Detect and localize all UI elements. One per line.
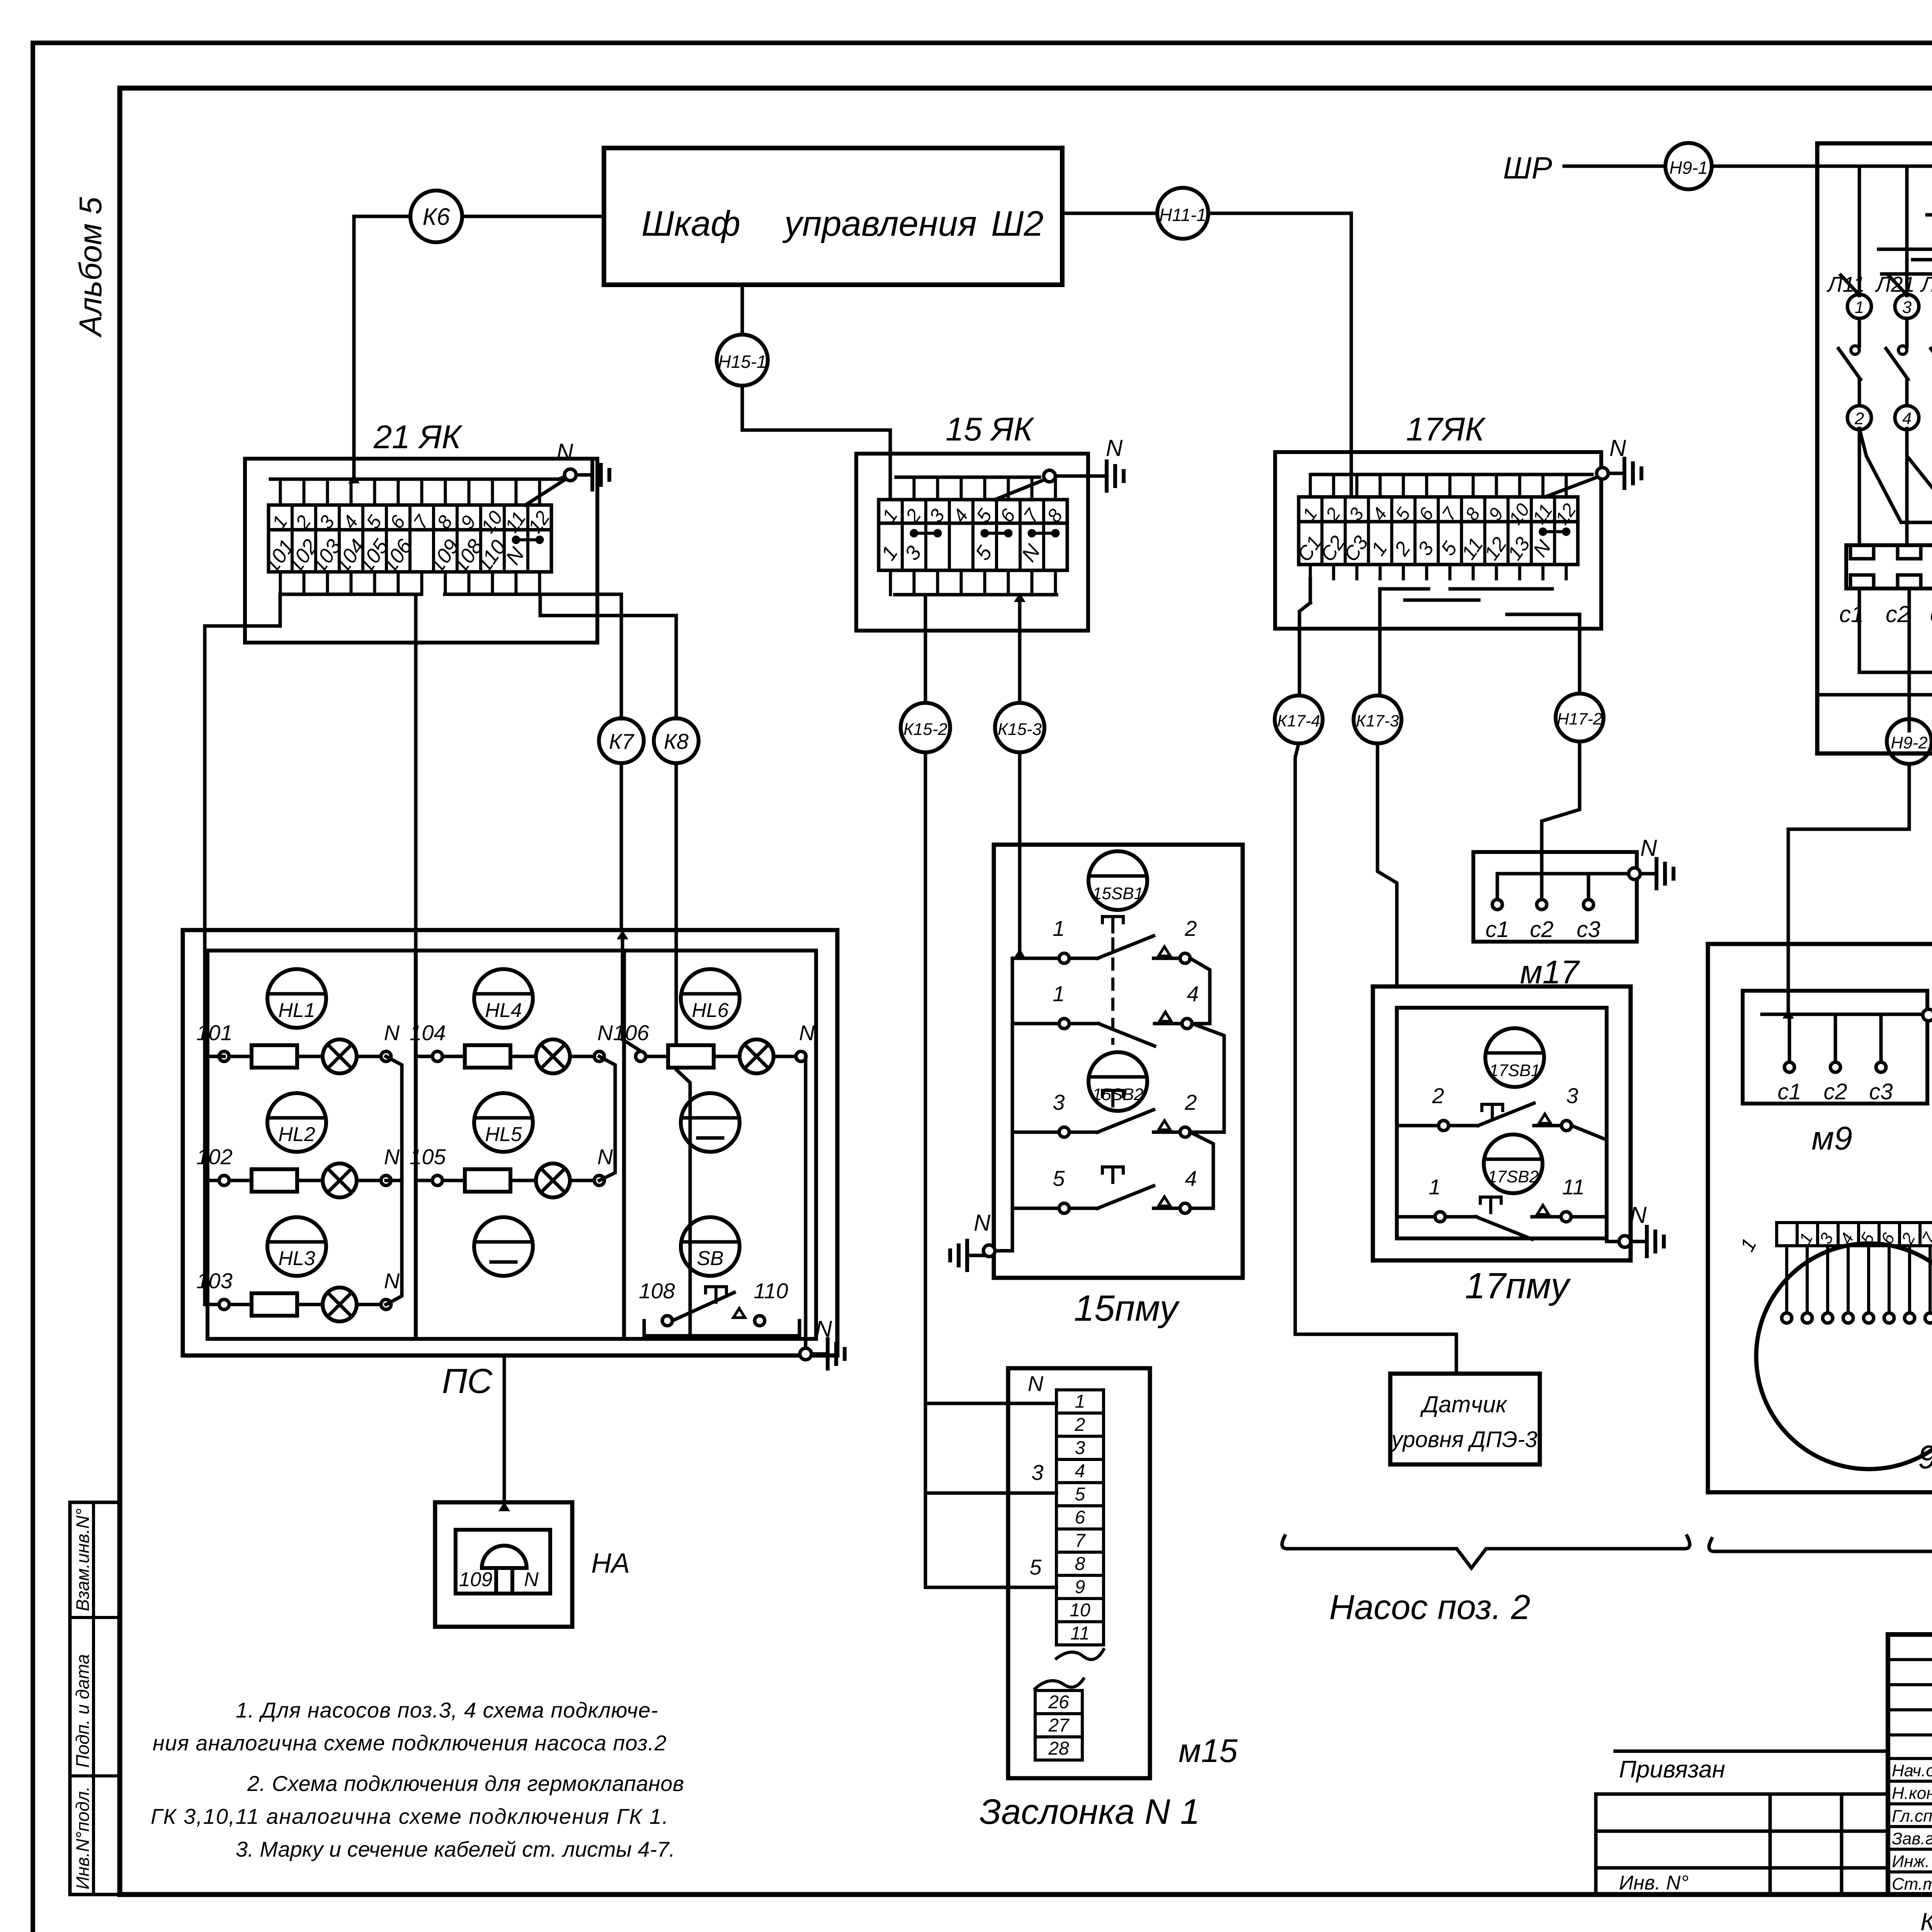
ПС ground	[811, 1352, 828, 1356]
wire Н9-2 to м9	[1788, 764, 1909, 1014]
м17 neutral node N	[1629, 868, 1640, 879]
svg-text:N: N	[1609, 435, 1626, 461]
svg-text:ГК 3,10,11 аналогична схеме: ГК 3,10,11 аналогична схеме подключения …	[151, 1804, 669, 1828]
svg-text:N: N	[384, 1269, 400, 1293]
indicator SB	[681, 1217, 740, 1276]
wire К7 upper	[540, 594, 621, 719]
terminal 103	[219, 1299, 229, 1310]
wire К15-2 upper	[924, 595, 927, 702]
svg-text:Инв. N°: Инв. N°	[1619, 1872, 1689, 1894]
15ЯК top bus	[896, 476, 1039, 479]
svg-text:17SB2: 17SB2	[1488, 1167, 1539, 1186]
indicator 15SB2	[1088, 1052, 1147, 1111]
м15 terminal cells 1-11	[1056, 1390, 1104, 1645]
21ЯК top bus	[270, 478, 558, 481]
terminal 105	[432, 1175, 442, 1185]
resistor 102	[252, 1169, 297, 1192]
9км braid line 8	[1882, 272, 1932, 276]
terminal N of row 104	[594, 1051, 604, 1061]
svg-text:3: 3	[900, 542, 926, 565]
svg-text:4: 4	[1075, 1461, 1085, 1481]
17пму inner box	[1397, 1008, 1607, 1238]
svg-text:15SB2: 15SB2	[1092, 1085, 1143, 1104]
resistor 104	[465, 1045, 510, 1068]
м9 terminal c1	[1788, 1014, 1791, 1062]
svg-text:105: 105	[410, 1145, 446, 1169]
svg-text:HL5: HL5	[485, 1123, 522, 1146]
terminal 102	[219, 1175, 229, 1185]
wire Н15-1 from Ш2 bottom	[741, 285, 744, 335]
17пму row1 terminals	[1439, 1121, 1449, 1131]
cable circle Н9-1	[1665, 143, 1712, 189]
9SQ terminal cells	[1777, 1223, 1932, 1247]
svg-text:N: N	[1529, 536, 1556, 561]
15пму row2 terminals	[1059, 1019, 1069, 1029]
svg-text:К6: К6	[422, 204, 450, 230]
svg-text:5: 5	[971, 541, 997, 565]
м17 terminal c2	[1540, 874, 1544, 899]
м17 internal bus	[1497, 872, 1629, 876]
terminal N of row 102	[381, 1175, 391, 1185]
cable circle К15-3	[995, 703, 1044, 752]
svg-text:НА: НА	[591, 1548, 630, 1579]
ПС divider 2	[622, 951, 626, 1339]
switch SB bracket	[644, 1321, 799, 1336]
wire N to м15 cell1	[925, 1402, 1056, 1405]
17ЯК top bus	[1312, 473, 1592, 476]
resistor 106	[668, 1045, 714, 1068]
terminal block 21ЯК outline	[245, 459, 597, 643]
svg-text:15 ЯК: 15 ЯК	[946, 411, 1035, 448]
indicator HL4	[474, 969, 533, 1028]
svg-text:104: 104	[410, 1020, 446, 1045]
bell НА outer box	[435, 1502, 572, 1627]
svg-text:уровня ДПЭ-3: уровня ДПЭ-3	[1390, 1427, 1537, 1452]
cable circle К15-2	[901, 703, 950, 752]
м9 neutral node N	[1923, 1009, 1932, 1021]
svg-text:9SQ: 9SQ	[1918, 1439, 1932, 1476]
svg-text:Н15-1: Н15-1	[718, 352, 766, 372]
wire К17-4 upper	[1298, 629, 1301, 694]
21ЯК N diagonal link	[526, 479, 566, 505]
svg-text:2: 2	[1390, 538, 1415, 560]
svg-text:5: 5	[1437, 537, 1462, 560]
resistor 101	[252, 1045, 297, 1068]
svg-text:HL1: HL1	[278, 999, 315, 1022]
wire N bus column2	[599, 1056, 615, 1180]
svg-text:1: 1	[877, 542, 902, 565]
svg-text:2: 2	[1854, 409, 1864, 428]
wire row 102	[229, 1179, 252, 1182]
indicator HL1	[267, 969, 326, 1028]
svg-text:3: 3	[1566, 1083, 1578, 1108]
wire to ПС column2	[414, 594, 418, 951]
ПС neutral node N	[800, 1348, 811, 1360]
wire Н17-2 to м17	[1542, 742, 1580, 874]
svg-text:1: 1	[1429, 1175, 1440, 1199]
wire К17-4 to Датчик	[1295, 743, 1456, 1374]
svg-text:м9: м9	[1811, 1120, 1852, 1157]
svg-text:5: 5	[1029, 1555, 1042, 1579]
17пму neutral node N	[1607, 1240, 1619, 1243]
15пму row4 terminals	[1059, 1203, 1069, 1213]
indicator reserve dash c3	[681, 1093, 740, 1152]
svg-text:К17-4: К17-4	[1277, 712, 1320, 730]
wire ШР to 9км	[1564, 165, 1665, 168]
9км contact column at 4812	[1847, 294, 1871, 318]
wire K6 vertical to 21ЯК	[352, 216, 356, 479]
resistor 103	[252, 1293, 297, 1316]
svg-text:HL3: HL3	[278, 1247, 315, 1270]
svg-text:N: N	[597, 1020, 613, 1045]
svg-text:с2: с2	[1530, 917, 1553, 942]
svg-text:Заслонка N 1: Заслонка N 1	[980, 1792, 1200, 1832]
left margin stamp boxes	[70, 1502, 120, 1895]
15пму mechanical dashed link	[1111, 939, 1114, 1043]
svg-text:15SB1: 15SB1	[1092, 884, 1143, 903]
wire feed column2	[416, 1055, 432, 1058]
svg-text:с3: с3	[1869, 1079, 1893, 1104]
svg-text:3: 3	[1053, 1090, 1065, 1114]
svg-text:Ст.техн.: Ст.техн.	[1892, 1875, 1932, 1894]
svg-text:7: 7	[1075, 1531, 1086, 1551]
cable circle Н15-1	[717, 335, 768, 386]
КК1 phase leads	[1858, 429, 1861, 545]
svg-text:К7: К7	[609, 729, 634, 753]
svg-text:ния аналогична схеме подклю: ния аналогична схеме подключения насоса …	[153, 1731, 667, 1755]
svg-text:17ЯК: 17ЯК	[1406, 411, 1486, 448]
ПС inner box	[207, 951, 816, 1339]
wire К8 lower into ПС	[676, 763, 690, 1336]
cable circle Н9-2	[1887, 719, 1932, 764]
bell НА inner box	[456, 1530, 550, 1594]
svg-text:3: 3	[1413, 538, 1438, 560]
svg-text:К17-3: К17-3	[1356, 712, 1399, 730]
wire 5 to м15 cell9	[925, 1586, 1056, 1589]
svg-text:11: 11	[1562, 1175, 1585, 1199]
svg-text:1. Для насосов поз.3, 4 схе: 1. Для насосов поз.3, 4 схема подключе-	[236, 1698, 658, 1722]
КК1 phase leads lower	[1858, 588, 1861, 672]
terminal block 17ЯК cells	[1293, 474, 1580, 579]
limit switch 9SQ circle	[1756, 1243, 1932, 1469]
svg-text:ПС: ПС	[442, 1362, 493, 1401]
svg-text:2. Схема подключения для ге: 2. Схема подключения для гермоклапанов	[247, 1771, 684, 1796]
9км braid line 4	[1927, 213, 1932, 217]
lamp row 103	[323, 1287, 357, 1321]
svg-text:5: 5	[1075, 1484, 1085, 1505]
local control post 17пму outer box	[1373, 986, 1631, 1260]
svg-text:4: 4	[1187, 981, 1199, 1006]
svg-text:с3: с3	[1930, 601, 1932, 627]
17пму row1 switch	[1449, 1124, 1478, 1128]
svg-text:17пму: 17пму	[1465, 1265, 1571, 1306]
svg-text:Ш2: Ш2	[991, 204, 1044, 243]
15пму row1 terminals	[1059, 953, 1069, 963]
indicator HL5	[474, 1093, 533, 1152]
wire row 103	[229, 1303, 252, 1306]
terminal 101	[219, 1051, 229, 1061]
indicator HL2	[267, 1093, 326, 1152]
svg-text:N: N	[974, 1210, 991, 1236]
svg-text:27: 27	[1048, 1715, 1070, 1736]
9км bottom bus 1	[1859, 671, 1932, 674]
svg-text:1: 1	[1736, 1235, 1761, 1255]
svg-text:Н.контр.: Н.контр.	[1892, 1784, 1932, 1803]
svg-text:Н9-2: Н9-2	[1891, 733, 1927, 752]
svg-text:17SB1: 17SB1	[1489, 1061, 1540, 1080]
lamp row 105	[536, 1163, 570, 1197]
svg-text:с2: с2	[1823, 1079, 1847, 1104]
svg-text:3. Марку и сечение кабелей: 3. Марку и сечение кабелей ст. листы 4-7…	[236, 1837, 675, 1861]
indicator HL6	[681, 969, 740, 1028]
svg-text:1: 1	[1075, 1391, 1085, 1412]
15пму ground	[967, 1254, 983, 1257]
17ЯК lower buses	[1309, 579, 1312, 603]
21ЯК ground	[576, 473, 592, 477]
indicator reserve dash c2	[474, 1217, 533, 1276]
svg-text:К8: К8	[664, 729, 689, 753]
wire К8 upper	[540, 594, 676, 719]
svg-text:с1: с1	[1485, 917, 1509, 942]
svg-text:11: 11	[1529, 500, 1556, 528]
terminal N of row 103	[381, 1299, 391, 1310]
brace Насос поз 2	[1282, 1536, 1690, 1568]
ПС divider 1	[414, 951, 418, 1339]
terminal block 15ЯК outline	[856, 454, 1088, 631]
indicator 15SB1	[1088, 851, 1147, 910]
wire N bus column1	[386, 1056, 402, 1304]
lamp row 104	[536, 1039, 570, 1073]
svg-text:8: 8	[1075, 1554, 1085, 1574]
м15 terminal cells 26-28	[1035, 1690, 1082, 1760]
9SQ terminal stems	[1782, 1246, 1932, 1323]
svg-text:Н17-2: Н17-2	[1557, 710, 1602, 728]
15ЯК ground	[1055, 474, 1090, 478]
15пму row1 switch	[1069, 957, 1098, 960]
wire K6 horizontal	[354, 215, 411, 218]
wire Н9-2 from КК1	[1908, 719, 1911, 731]
svg-text:К15-2: К15-2	[903, 720, 947, 739]
15пму right bus	[1190, 958, 1210, 1024]
svg-text:N: N	[1106, 435, 1123, 461]
15пму neutral node N	[983, 1245, 995, 1257]
svg-text:HL4: HL4	[485, 999, 522, 1022]
cable circle К8	[654, 718, 699, 763]
control cabinet box Ш2	[604, 148, 1062, 285]
wire 3 to м15 cell5	[925, 1492, 1056, 1495]
cable circle Н17-2	[1556, 694, 1604, 742]
15пму left bus	[995, 958, 1059, 1251]
9км braid line 6	[1879, 248, 1932, 251]
wire to ПС column1	[205, 594, 280, 1056]
wire К15-2 trunk down to м15	[924, 752, 927, 1587]
svg-text:3: 3	[1075, 1438, 1085, 1458]
svg-text:4: 4	[1902, 409, 1912, 428]
svg-text:HL6: HL6	[692, 999, 728, 1022]
svg-text:Гл.спец.: Гл.спец.	[1892, 1806, 1932, 1825]
wire row 104	[442, 1055, 465, 1058]
15пму row2 switch	[1069, 1022, 1099, 1026]
15ЯК neutral node N	[1044, 470, 1055, 482]
17пму ground	[1631, 1240, 1647, 1243]
cable circle К17-4	[1275, 696, 1323, 743]
svg-text:N: N	[1630, 1202, 1647, 1228]
svg-text:Н11-1: Н11-1	[1159, 205, 1206, 225]
svg-text:Шкаф: Шкаф	[641, 204, 740, 243]
9км phase entry diagonals	[1841, 275, 1857, 293]
svg-text:HL2: HL2	[278, 1123, 315, 1146]
svg-text:м15: м15	[1179, 1733, 1238, 1769]
wire N return column3	[804, 1056, 808, 1349]
indicator HL3	[267, 1217, 326, 1276]
svg-text:1: 1	[1053, 981, 1065, 1006]
svg-text:102: 102	[196, 1145, 232, 1169]
svg-text:101: 101	[196, 1020, 232, 1045]
brace Гермоклапан ГК1	[1709, 1539, 1932, 1571]
15ЯК lower bus	[895, 593, 1056, 597]
wire Н11-1 vertical to 17ЯК	[1350, 213, 1353, 497]
svg-text:3: 3	[1031, 1460, 1043, 1485]
svg-text:Датчик: Датчик	[1420, 1391, 1508, 1417]
9км bottom bus 2	[1817, 693, 1932, 697]
21ЯК lower bus A	[280, 593, 421, 596]
title block staff rows	[1888, 1780, 1932, 1783]
15пму row3 switch	[1069, 1131, 1098, 1134]
lamp row 101	[323, 1039, 357, 1073]
terminal N of row 106	[796, 1051, 806, 1061]
svg-text:106: 106	[613, 1020, 649, 1045]
svg-text:103: 103	[196, 1269, 232, 1293]
motor м17 box	[1473, 852, 1637, 942]
svg-text:Взам.инв.N°: Взам.инв.N°	[72, 1509, 93, 1611]
svg-text:2: 2	[1075, 1415, 1085, 1435]
wire К15-3 into 15пму	[1018, 752, 1022, 958]
cable circle К6	[410, 190, 462, 242]
svg-text:109: 109	[459, 1568, 493, 1591]
wire ПС to НА	[503, 1355, 506, 1502]
м17 terminal c1	[1496, 874, 1499, 899]
indicator 17SB1	[1485, 1028, 1544, 1087]
15пму row3 terminals	[1059, 1127, 1069, 1137]
svg-text:9: 9	[1075, 1577, 1085, 1597]
svg-text:с3: с3	[1577, 917, 1600, 942]
svg-text:3: 3	[1902, 298, 1912, 317]
terminal 106	[636, 1051, 646, 1061]
svg-text:SB: SB	[697, 1247, 723, 1270]
м9 terminal c2	[1834, 1014, 1837, 1062]
indicator 17SB2	[1484, 1134, 1543, 1193]
contactor assembly 9км box	[1817, 143, 1932, 753]
svg-text:N: N	[799, 1020, 815, 1045]
wire row 105	[442, 1179, 465, 1182]
svg-text:N: N	[1028, 1371, 1044, 1396]
21ЯК neutral node N	[565, 469, 576, 481]
terminal N of row 105	[594, 1175, 604, 1185]
17пму row2 terminals	[1435, 1212, 1445, 1222]
svg-text:Инж.: Инж.	[1892, 1852, 1930, 1871]
wire Н15-1 jog to 15ЯК	[742, 430, 890, 500]
svg-text:11: 11	[1070, 1623, 1090, 1644]
bell symbol	[482, 1546, 527, 1568]
svg-text:2: 2	[1432, 1083, 1444, 1108]
resistor 105	[465, 1169, 510, 1192]
17ЯК neutral node N	[1597, 468, 1608, 479]
cable circle К7	[599, 718, 644, 763]
terminal block 15ЯК cells	[877, 477, 1067, 595]
svg-text:Насос поз. 2: Насос поз. 2	[1329, 1588, 1531, 1627]
15ЯК N diagonal link	[995, 480, 1044, 500]
svg-text:Н9-1: Н9-1	[1669, 158, 1708, 178]
svg-text:N: N	[556, 439, 573, 465]
svg-text:Привязан: Привязан	[1619, 1756, 1725, 1783]
terminal block 21ЯК cells	[260, 479, 554, 594]
15пму row4 switch	[1069, 1207, 1098, 1210]
svg-text:управления: управления	[782, 204, 977, 243]
17пму row2 switch	[1445, 1215, 1476, 1219]
svg-text:N: N	[384, 1020, 400, 1045]
21ЯК lower bus B	[445, 593, 540, 596]
left sub table	[1596, 1793, 1888, 1796]
svg-text:2: 2	[1184, 916, 1197, 940]
thermal relay КК1 heaters	[1846, 545, 1932, 588]
svg-text:5: 5	[1053, 1166, 1065, 1190]
svg-text:1: 1	[1367, 538, 1392, 560]
svg-text:ШР: ШР	[1503, 151, 1552, 185]
wire row 101	[229, 1055, 252, 1058]
wire К15-3 upper	[1018, 595, 1022, 702]
svg-text:108: 108	[639, 1279, 675, 1303]
svg-text:6: 6	[1075, 1507, 1085, 1528]
привязан line	[1615, 1750, 1888, 1753]
svg-text:10: 10	[1070, 1600, 1090, 1621]
signal panel ПС outer box	[183, 930, 837, 1355]
title block outer	[1888, 1634, 1932, 1895]
9км braid verticals	[1858, 166, 1861, 296]
svg-text:Л21: Л21	[1875, 272, 1915, 296]
м17 terminal c3	[1587, 874, 1590, 899]
м9 terminal c3	[1879, 1014, 1883, 1062]
svg-text:1: 1	[1053, 916, 1065, 940]
м17 ground	[1640, 872, 1656, 876]
wire feed column1 bus	[205, 1056, 219, 1304]
damper actuator м15 box	[1008, 1368, 1150, 1778]
local control post 15пму box	[994, 845, 1243, 1278]
title block thin rows	[1888, 1658, 1932, 1661]
svg-text:28: 28	[1048, 1738, 1069, 1759]
terminal 104	[432, 1051, 442, 1061]
svg-text:4: 4	[1185, 1166, 1197, 1190]
svg-text:Копировал: Копировал	[1920, 1908, 1932, 1932]
terminal N of row 101	[381, 1051, 391, 1061]
cable circle К17-3	[1354, 696, 1401, 743]
9км top feed bus	[1818, 165, 1932, 168]
switch SB terminals 108 110	[662, 1316, 672, 1326]
svg-text:с1: с1	[1777, 1079, 1801, 1104]
м9 internal bus	[1762, 1013, 1923, 1016]
17ЯК ground	[1608, 472, 1624, 475]
17ЯК N diagonal link	[1545, 477, 1597, 497]
wire Н17-2 upper	[1578, 614, 1582, 692]
17пму left bus	[1397, 1124, 1439, 1128]
lamp row 106	[740, 1039, 774, 1073]
svg-text:1: 1	[1855, 298, 1864, 317]
level sensor box Датчик уровня ДПЭ-3	[1390, 1374, 1540, 1464]
svg-text:N: N	[597, 1145, 613, 1169]
9км contact column at 4935	[1895, 294, 1919, 318]
svg-text:Альбом 5: Альбом 5	[73, 197, 108, 338]
svg-text:с2: с2	[1886, 601, 1910, 627]
svg-text:110: 110	[753, 1279, 788, 1303]
